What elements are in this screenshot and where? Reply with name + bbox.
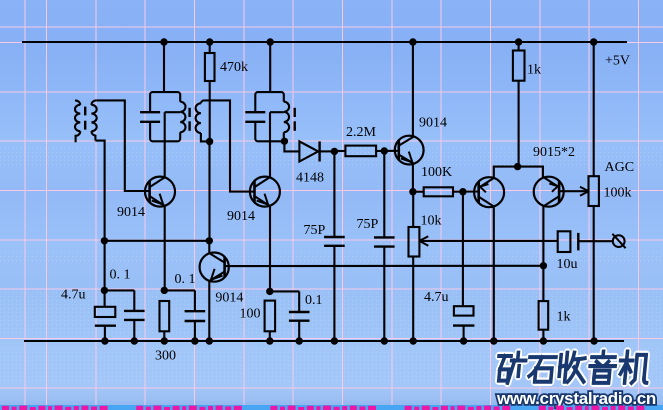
wire T2 feed [163, 42, 165, 92]
node Q1 emitter R [161, 287, 168, 294]
wire Q4 collector [412, 42, 414, 136]
wire pot10k top [412, 192, 414, 227]
svg-text:www.crystalradio.cn: www.crystalradio.cn [496, 389, 656, 408]
node T2 return [206, 138, 213, 145]
node bias-bus-left [101, 237, 108, 244]
wire T1 sec top to Q1 base [96, 100, 149, 191]
svg-text:100: 100 [240, 306, 261, 321]
wire Q6 base to AGC [558, 190, 589, 192]
wire 0.1-1 bottom [133, 320, 135, 341]
tank T2 loop bottom [150, 122, 180, 142]
inductor T1 primary [75, 101, 80, 105]
wire 2.2M to Q4 base [376, 150, 399, 152]
svg-text:9014: 9014 [215, 290, 243, 305]
wire 0.1-2 top [194, 290, 196, 311]
svg-text:+5V: +5V [605, 54, 630, 69]
wire 470k bottom [209, 81, 211, 142]
wire pot10k bottom [412, 257, 414, 342]
svg-text:75P: 75P [357, 217, 379, 232]
wire wiper to 10u [419, 240, 557, 242]
wire to 0.1-1 [104, 289, 134, 291]
capacitor T2 [140, 111, 160, 113]
transistor Q5 9015 [474, 177, 504, 207]
wire T3 to diode [284, 141, 299, 151]
wire Q2 emitter [269, 206, 271, 292]
wire 75P2 bottom [383, 247, 385, 341]
wire Q6 collector [542, 206, 544, 301]
node detector [331, 148, 338, 155]
resistor 100 [265, 301, 276, 332]
node rail-T2 [160, 38, 167, 45]
pot 10k wiper arrow [419, 236, 428, 241]
node rail-T3 [267, 38, 274, 45]
wire bias down [208, 142, 210, 241]
core T1 [84, 107, 86, 116]
transistor Q1 9014 [145, 177, 175, 207]
wire 0.1-3 top [298, 291, 300, 312]
ground junctions [101, 337, 108, 344]
capacitor 4.7u1 [95, 307, 116, 317]
transistor Q4 9014 [395, 136, 424, 165]
node 100K right [459, 188, 466, 195]
svg-text:0. 1: 0. 1 [110, 267, 131, 282]
svg-text:0. 1: 0. 1 [175, 272, 196, 287]
svg-text:300: 300 [155, 348, 176, 363]
node rail-AGC [590, 38, 597, 45]
wire Q2 collector [269, 112, 271, 177]
resistor 100K [424, 187, 453, 196]
capacitor 75P1 [324, 236, 345, 238]
wire 4.7u1 bottom [104, 326, 106, 341]
node Q1e bias [101, 287, 108, 294]
wire 10u to jack [578, 240, 613, 242]
wire 75P1 bottom [333, 246, 335, 341]
node rail-470k [206, 38, 213, 45]
svg-text:4.7u: 4.7u [61, 287, 86, 302]
wire 100K right [453, 190, 479, 192]
node T3 bottom [281, 138, 288, 145]
wire 300 bottom [163, 331, 165, 341]
capacitor 4.7u2 [454, 306, 474, 315]
capacitor 75P2 [374, 236, 395, 238]
wire 0.1-2 bottom [194, 321, 196, 341]
diode 4148 [299, 141, 318, 161]
wire T2 sec bottom [201, 133, 210, 141]
wire 4.7u2 top [462, 192, 464, 307]
svg-text:100K: 100K [421, 165, 452, 180]
AGC wiper arrow [580, 187, 589, 192]
core T3 [294, 108, 296, 117]
wire Q1 collector [164, 112, 166, 177]
wire AGC bottom [593, 206, 595, 341]
wire bias bus [104, 240, 209, 242]
wire Q3 emitter [208, 281, 210, 341]
potentiometer AGC 100k [589, 176, 599, 206]
svg-text:100k: 100k [604, 185, 632, 200]
capacitor T3 [245, 111, 265, 113]
resistor 1k top [513, 51, 525, 81]
wire T1 sec bottom [95, 141, 104, 291]
wire 4.7u2 bottom [463, 326, 465, 341]
tank T2 loop [150, 92, 180, 112]
wire 1k to emitters [518, 81, 520, 167]
tank T3 loop bottom [255, 122, 283, 142]
wire Q1 emitter [164, 206, 166, 291]
svg-text:2.2M: 2.2M [346, 125, 377, 140]
inductor T1 secondary [91, 100, 96, 104]
wire 0.1-3 bottom [298, 321, 300, 341]
svg-text:AGC: AGC [605, 160, 635, 175]
svg-text:9014: 9014 [419, 116, 447, 131]
svg-text:4.7u: 4.7u [424, 290, 449, 305]
core T2 [188, 108, 190, 117]
wire diode out [320, 150, 335, 152]
resistor 2.2M [345, 146, 376, 157]
resistor 300 [160, 301, 170, 331]
node Q6 collector join [540, 262, 547, 269]
capacitor 0.1-1 [124, 310, 145, 312]
svg-text:9015*2: 9015*2 [533, 145, 575, 160]
node Q4 emitter [409, 188, 416, 195]
svg-text:9014: 9014 [227, 209, 255, 224]
wire 100K left [413, 191, 424, 193]
node Q2 emitter R [266, 288, 273, 295]
wire Q3 base line [225, 265, 544, 267]
wire T2 sec top to Q2 base [204, 100, 255, 191]
svg-text:4148: 4148 [296, 170, 324, 185]
capacitor 0.1-2 [185, 310, 206, 312]
svg-text:470k: 470k [220, 60, 248, 75]
svg-text:0.1: 0.1 [305, 293, 323, 308]
wire to 0.1-3 [270, 290, 299, 292]
wire 0.1-1 top [133, 290, 135, 311]
inductor T2 secondary [201, 100, 204, 103]
transistor Q2 9014 [250, 177, 280, 207]
wire Q5 collector [493, 206, 495, 341]
node emitters [514, 163, 521, 170]
capacitor 10u [558, 231, 571, 252]
wire 75P2 top [383, 151, 385, 237]
wire Q4 emitter [412, 164, 414, 192]
wire 1k bottom lead [542, 330, 544, 341]
inductor T3 coil [284, 102, 289, 133]
wire detector to 2.2M [334, 150, 345, 152]
jack [613, 235, 625, 247]
node bias-bus-right [206, 237, 213, 244]
svg-text:75P: 75P [304, 223, 326, 238]
inductor T2 primary [180, 102, 185, 133]
wire 470k top [209, 42, 211, 53]
wire T3 tap [270, 111, 284, 113]
watermark 矿石收音机 [497, 352, 650, 383]
transistor Q3 9014 [200, 253, 229, 282]
resistor 1k bottom [539, 301, 549, 330]
svg-text:10u: 10u [557, 257, 578, 272]
bottom magenta watermark row [2, 406, 9, 410]
tank T3 loop [255, 92, 283, 112]
potentiometer 10k [409, 227, 420, 257]
capacitor 0.1-3 [289, 311, 310, 313]
wire T2 tap [165, 111, 181, 113]
wire Q3 collector [208, 241, 210, 253]
wire 100 bottom [269, 331, 271, 341]
resistor 470k [205, 53, 215, 81]
transistor Q6 9015 [534, 177, 564, 207]
svg-text:9014: 9014 [117, 205, 145, 220]
wire 4.7u1 lead [104, 290, 106, 306]
wire T3 feed [269, 42, 271, 92]
wire Q5 emitter [494, 167, 543, 178]
wire 75P1 top [333, 151, 335, 237]
node rail-1k [515, 38, 522, 45]
svg-text:1k: 1k [527, 63, 541, 78]
svg-text:1k: 1k [557, 309, 571, 324]
wire 1k emitter feed [518, 42, 520, 51]
wire ground bus [24, 340, 624, 342]
wire +5V rail [22, 41, 627, 43]
wire to 0.1-2 [164, 289, 195, 291]
node Q4 base [381, 147, 388, 154]
node rail-Q4 [409, 38, 416, 45]
svg-text:10k: 10k [421, 214, 442, 229]
wire AGC top [593, 42, 595, 176]
